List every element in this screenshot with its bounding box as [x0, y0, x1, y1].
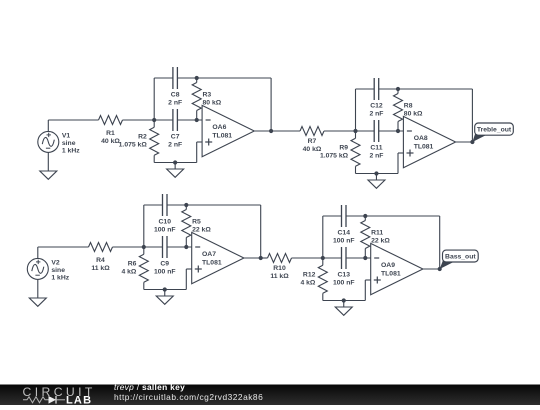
svg-text:2 nF: 2 nF	[168, 142, 182, 149]
svg-text:C9: C9	[160, 261, 169, 268]
svg-text:R4: R4	[96, 257, 105, 264]
svg-text:C11: C11	[370, 145, 382, 152]
svg-text:1 kHz: 1 kHz	[51, 275, 69, 282]
svg-text:R12: R12	[303, 272, 316, 279]
svg-text:2 nF: 2 nF	[168, 100, 182, 107]
svg-text:4 kΩ: 4 kΩ	[300, 280, 315, 287]
svg-text:80 kΩ: 80 kΩ	[203, 100, 222, 107]
svg-text:OA6: OA6	[212, 124, 226, 131]
svg-text:OA9: OA9	[381, 262, 395, 269]
svg-text:11 kΩ: 11 kΩ	[91, 265, 110, 272]
svg-text:R8: R8	[404, 103, 413, 110]
svg-text:1.075 kΩ: 1.075 kΩ	[119, 142, 148, 149]
svg-text:C7: C7	[171, 134, 180, 141]
svg-text:22 kΩ: 22 kΩ	[371, 238, 390, 245]
svg-text:100 nF: 100 nF	[154, 227, 176, 234]
svg-text:11 kΩ: 11 kΩ	[270, 273, 289, 280]
svg-text:sine: sine	[51, 267, 65, 274]
svg-text:R1: R1	[106, 130, 115, 137]
svg-text:R6: R6	[128, 261, 137, 268]
svg-text:4 kΩ: 4 kΩ	[121, 269, 136, 276]
svg-text:C14: C14	[338, 230, 351, 237]
svg-text:C12: C12	[370, 103, 383, 110]
svg-text:40 kΩ: 40 kΩ	[101, 138, 120, 145]
svg-text:TL081: TL081	[202, 260, 222, 267]
svg-text:LAB: LAB	[66, 394, 92, 405]
svg-text:TL081: TL081	[212, 133, 232, 140]
svg-text:Bass_out: Bass_out	[445, 253, 476, 260]
svg-text:2 nF: 2 nF	[369, 111, 383, 118]
svg-text:Treble_out: Treble_out	[477, 127, 512, 134]
svg-text:R10: R10	[273, 265, 286, 272]
svg-text:sine: sine	[62, 140, 76, 147]
svg-text:100 nF: 100 nF	[333, 238, 355, 245]
svg-text:R2: R2	[138, 134, 147, 141]
svg-text:C10: C10	[159, 219, 172, 226]
svg-text:R11: R11	[371, 230, 383, 237]
svg-text:1.075 kΩ: 1.075 kΩ	[320, 153, 349, 160]
svg-text:V2: V2	[51, 259, 60, 266]
svg-text:OA8: OA8	[414, 135, 428, 142]
svg-text:http://circuitlab.com/cg2rvd32: http://circuitlab.com/cg2rvd322ak86	[114, 392, 263, 402]
svg-text:80 kΩ: 80 kΩ	[404, 111, 423, 118]
svg-text:TL081: TL081	[381, 271, 401, 278]
svg-text:trevp / sallen key: trevp / sallen key	[114, 382, 185, 392]
svg-text:2 nF: 2 nF	[369, 153, 383, 160]
svg-text:C8: C8	[171, 92, 180, 99]
svg-text:TL081: TL081	[414, 144, 434, 151]
svg-text:R9: R9	[339, 145, 348, 152]
svg-text:V1: V1	[62, 132, 71, 139]
svg-text:C13: C13	[338, 272, 351, 279]
svg-text:100 nF: 100 nF	[333, 280, 355, 287]
svg-text:R7: R7	[308, 138, 317, 145]
svg-text:22 kΩ: 22 kΩ	[192, 227, 211, 234]
svg-text:1 kHz: 1 kHz	[62, 148, 80, 155]
svg-text:R5: R5	[192, 219, 201, 226]
svg-text:OA7: OA7	[202, 251, 216, 258]
svg-text:100 nF: 100 nF	[154, 269, 176, 276]
svg-text:R3: R3	[203, 92, 212, 99]
